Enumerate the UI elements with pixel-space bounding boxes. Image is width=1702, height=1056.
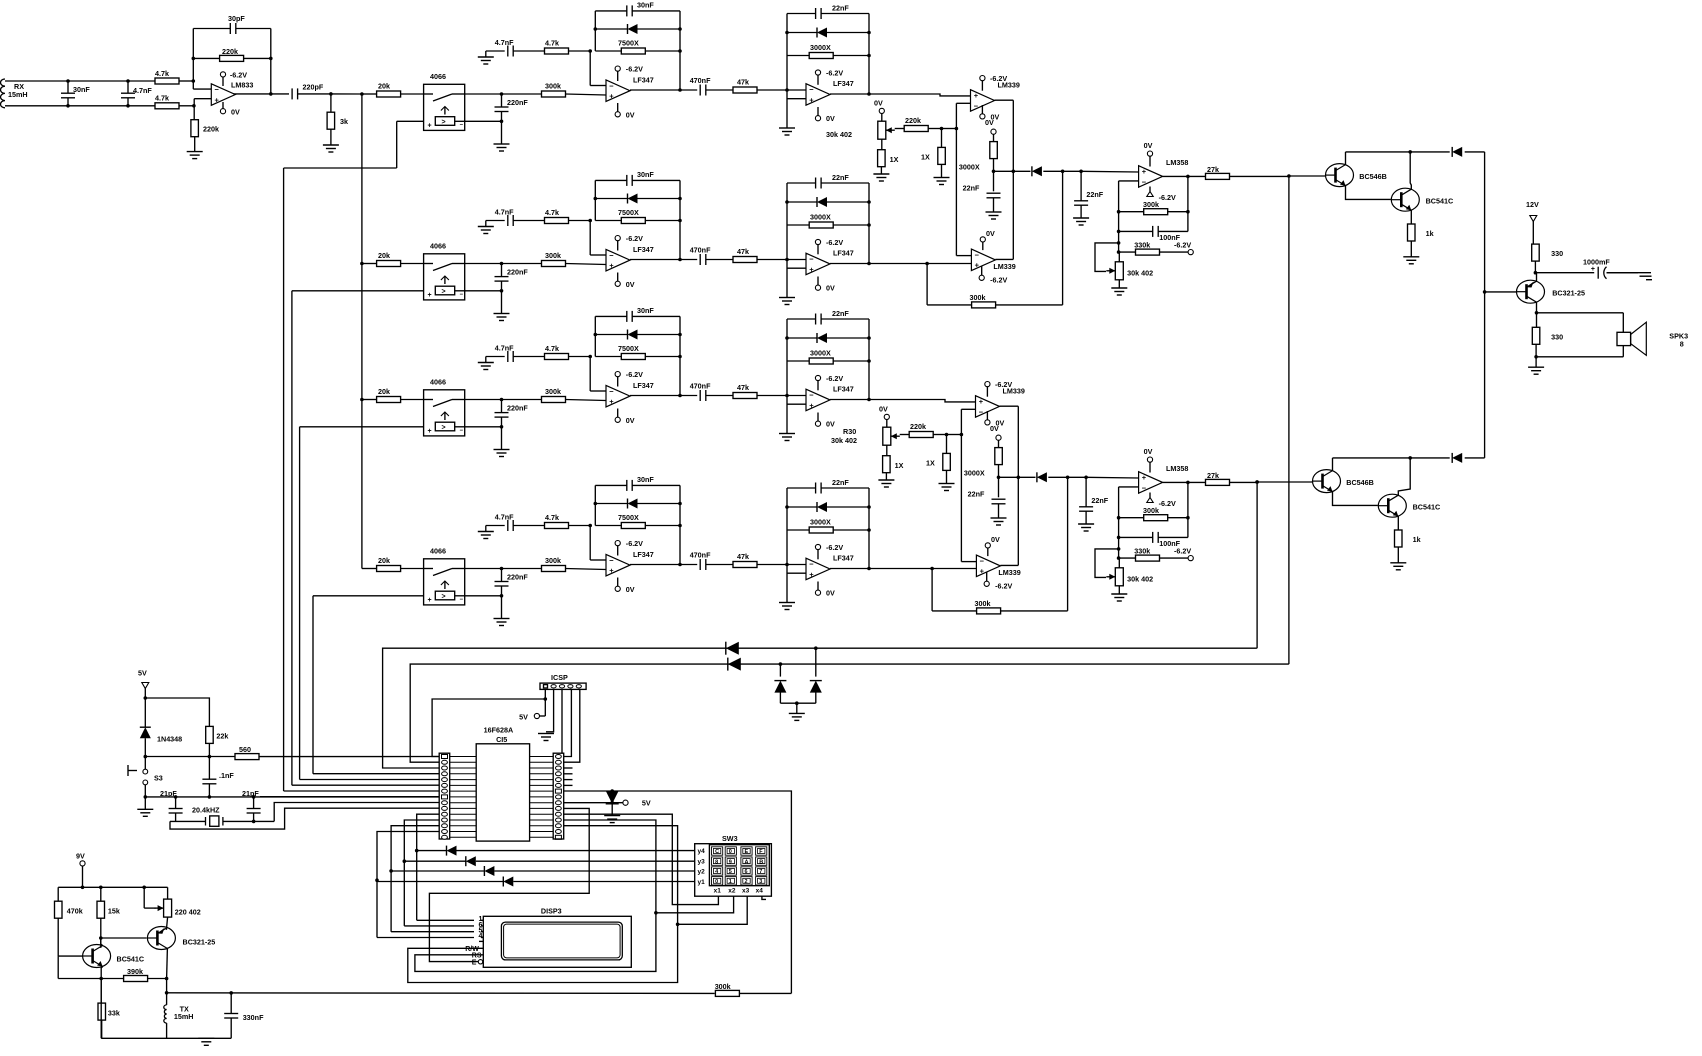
svg-text:LF347: LF347 — [833, 554, 854, 563]
svg-text:4066: 4066 — [430, 378, 446, 387]
svg-text:LF347: LF347 — [833, 79, 854, 88]
svg-text:−: − — [809, 255, 814, 264]
svg-text:330k: 330k — [1134, 241, 1150, 250]
svg-text:>: > — [442, 424, 446, 431]
svg-text:7500X: 7500X — [618, 344, 639, 353]
svg-text:220pF: 220pF — [303, 83, 324, 92]
svg-text:1000mF: 1000mF — [1583, 258, 1610, 267]
svg-text:20k: 20k — [378, 556, 390, 565]
svg-text:27k: 27k — [1207, 165, 1219, 174]
svg-text:0V: 0V — [626, 585, 635, 594]
svg-text:300k: 300k — [545, 387, 561, 396]
svg-text:+: + — [428, 292, 432, 299]
svg-text:30nF: 30nF — [73, 85, 90, 94]
svg-text:47k: 47k — [737, 383, 749, 392]
svg-text:22nF: 22nF — [832, 173, 849, 182]
svg-text:9: 9 — [729, 859, 732, 865]
svg-text:0V: 0V — [991, 535, 1000, 544]
svg-text:47k: 47k — [737, 552, 749, 561]
svg-text:6: 6 — [745, 869, 748, 875]
svg-text:-6.2V: -6.2V — [1174, 547, 1191, 556]
svg-text:4.7nF: 4.7nF — [495, 208, 514, 217]
svg-text:+: + — [609, 397, 614, 406]
svg-text:470nF: 470nF — [690, 382, 711, 391]
svg-text:4.7k: 4.7k — [155, 94, 169, 103]
svg-text:1X: 1X — [890, 155, 899, 164]
svg-text:y3: y3 — [698, 859, 706, 866]
svg-text:−: − — [609, 387, 614, 396]
svg-text:300k: 300k — [715, 982, 731, 991]
svg-text:+: + — [974, 91, 979, 100]
svg-text:B: B — [759, 859, 763, 865]
svg-text:16F628A: 16F628A — [484, 726, 514, 735]
svg-text:9V: 9V — [76, 852, 85, 861]
svg-text:1: 1 — [729, 879, 732, 885]
svg-text:0V: 0V — [626, 110, 635, 119]
svg-text:0V: 0V — [826, 420, 835, 429]
svg-text:x3: x3 — [742, 888, 750, 895]
svg-text:RS: RS — [472, 952, 482, 959]
svg-text:4066: 4066 — [430, 72, 446, 81]
svg-text:LM833: LM833 — [231, 80, 253, 89]
svg-text:1X: 1X — [926, 459, 935, 468]
svg-text:5: 5 — [729, 869, 732, 875]
svg-text:22nF: 22nF — [1086, 190, 1103, 199]
svg-text:-6.2V: -6.2V — [990, 275, 1007, 284]
svg-text:1X: 1X — [921, 153, 930, 162]
svg-text:-6.2V: -6.2V — [826, 374, 843, 383]
svg-text:LF347: LF347 — [833, 385, 854, 394]
svg-text:x1: x1 — [714, 888, 722, 895]
svg-text:7500X: 7500X — [618, 513, 639, 522]
svg-text:5V: 5V — [519, 713, 528, 722]
svg-text:4066: 4066 — [430, 242, 446, 251]
svg-text:300k: 300k — [970, 293, 986, 302]
svg-text:22nF: 22nF — [832, 4, 849, 13]
svg-text:220nF: 220nF — [507, 573, 528, 582]
svg-text:15k: 15k — [108, 907, 120, 916]
svg-text:220nF: 220nF — [507, 98, 528, 107]
svg-text:15mH: 15mH — [8, 90, 28, 99]
svg-text:LM339: LM339 — [993, 262, 1015, 271]
svg-text:+: + — [609, 566, 614, 575]
svg-text:+: + — [975, 261, 980, 270]
svg-text:>: > — [442, 119, 446, 126]
svg-text:4.7k: 4.7k — [545, 344, 559, 353]
svg-text:330: 330 — [1551, 249, 1563, 258]
svg-text:+: + — [609, 92, 614, 101]
svg-text:220k: 220k — [222, 47, 238, 56]
svg-text:30k 402: 30k 402 — [1127, 268, 1153, 277]
svg-text:5V: 5V — [138, 669, 147, 678]
svg-text:−: − — [974, 101, 979, 110]
svg-text:−: − — [809, 391, 814, 400]
svg-text:3000X: 3000X — [810, 349, 831, 358]
svg-text:22nF: 22nF — [1091, 496, 1108, 505]
svg-text:30nF: 30nF — [637, 475, 654, 484]
svg-text:−: − — [979, 407, 984, 416]
svg-text:20k: 20k — [378, 251, 390, 260]
svg-text:220nF: 220nF — [507, 404, 528, 413]
svg-text:+: + — [980, 567, 985, 576]
svg-text:−: − — [1142, 177, 1147, 186]
svg-text:8: 8 — [715, 859, 718, 865]
svg-text:4: 4 — [715, 869, 719, 875]
svg-text:F: F — [759, 849, 763, 855]
svg-text:30nF: 30nF — [637, 306, 654, 315]
svg-text:BC546B: BC546B — [1359, 172, 1387, 181]
svg-text:−: − — [215, 85, 220, 94]
svg-text:4.7k: 4.7k — [545, 39, 559, 48]
svg-text:12V: 12V — [1526, 200, 1539, 209]
svg-text:22nF: 22nF — [832, 478, 849, 487]
svg-text:3000X: 3000X — [810, 213, 831, 222]
svg-text:220nF: 220nF — [507, 268, 528, 277]
svg-text:30nF: 30nF — [637, 0, 654, 9]
svg-text:0V: 0V — [626, 416, 635, 425]
svg-text:47k: 47k — [737, 247, 749, 256]
svg-text:LF347: LF347 — [633, 76, 654, 85]
svg-text:E: E — [472, 959, 477, 966]
svg-text:1X: 1X — [895, 461, 904, 470]
svg-text:220k: 220k — [203, 125, 219, 134]
svg-text:x2: x2 — [728, 888, 736, 895]
svg-text:21pF: 21pF — [160, 789, 177, 798]
svg-text:300k: 300k — [545, 556, 561, 565]
svg-text:0V: 0V — [1144, 447, 1153, 456]
svg-text:-6.2V: -6.2V — [230, 70, 247, 79]
svg-text:4.7nF: 4.7nF — [495, 344, 514, 353]
svg-text:22k: 22k — [216, 731, 228, 740]
svg-text:-6.2V: -6.2V — [626, 539, 643, 548]
svg-text:470nF: 470nF — [690, 246, 711, 255]
svg-text:BC546B: BC546B — [1346, 478, 1374, 487]
svg-text:4.7k: 4.7k — [155, 69, 169, 78]
svg-text:ICSP: ICSP — [551, 673, 568, 682]
svg-text:SW3: SW3 — [722, 834, 738, 843]
svg-text:BC321-25: BC321-25 — [1552, 289, 1585, 298]
svg-text:470k: 470k — [67, 907, 83, 916]
svg-text:BC321-25: BC321-25 — [183, 938, 216, 947]
svg-text:8: 8 — [1680, 340, 1684, 349]
svg-text:0: 0 — [715, 879, 718, 885]
svg-text:S3: S3 — [154, 774, 163, 783]
svg-text:7: 7 — [759, 869, 762, 875]
svg-text:47k: 47k — [737, 78, 749, 87]
svg-text:−: − — [609, 251, 614, 260]
svg-text:>: > — [442, 288, 446, 295]
svg-text:E: E — [745, 849, 749, 855]
svg-text:0V: 0V — [990, 424, 999, 433]
svg-text:+: + — [428, 123, 432, 130]
svg-text:+: + — [609, 261, 614, 270]
svg-text:LF347: LF347 — [633, 381, 654, 390]
svg-text:DISP3: DISP3 — [541, 907, 562, 916]
svg-text:0V: 0V — [1144, 141, 1153, 150]
svg-text:30k 402: 30k 402 — [1127, 574, 1153, 583]
svg-text:560: 560 — [239, 745, 251, 754]
svg-text:300k: 300k — [1143, 200, 1159, 209]
svg-text:y2: y2 — [698, 869, 706, 876]
svg-text:−: − — [460, 428, 464, 434]
svg-text:0V: 0V — [626, 280, 635, 289]
svg-text:SPK3: SPK3 — [1669, 332, 1688, 341]
svg-text:−: − — [460, 597, 464, 603]
svg-text:30k 402: 30k 402 — [826, 130, 852, 139]
svg-text:20k: 20k — [378, 387, 390, 396]
svg-text:y1: y1 — [698, 879, 706, 886]
svg-text:+: + — [1142, 167, 1147, 176]
svg-text:22nF: 22nF — [832, 309, 849, 318]
svg-text:−: − — [809, 85, 814, 94]
svg-text:330nF: 330nF — [243, 1013, 264, 1022]
svg-text:LM358: LM358 — [1166, 158, 1188, 167]
svg-text:−: − — [1142, 483, 1147, 492]
svg-text:−: − — [809, 560, 814, 569]
svg-text:3000X: 3000X — [810, 43, 831, 52]
svg-text:LF347: LF347 — [633, 245, 654, 254]
svg-text:4066: 4066 — [430, 547, 446, 556]
svg-text:1k: 1k — [1426, 229, 1434, 238]
svg-text:A: A — [745, 859, 749, 865]
svg-text:LM339: LM339 — [1003, 387, 1025, 396]
svg-text:330: 330 — [1551, 333, 1563, 342]
svg-text:-6.2V: -6.2V — [826, 69, 843, 78]
svg-text:+: + — [428, 428, 432, 435]
svg-text:LF347: LF347 — [633, 550, 654, 559]
svg-text:21pF: 21pF — [242, 789, 259, 798]
svg-text:LM339: LM339 — [998, 568, 1020, 577]
svg-text:-6.2V: -6.2V — [826, 238, 843, 247]
svg-text:33k: 33k — [108, 1009, 120, 1018]
svg-text:3: 3 — [759, 879, 762, 885]
svg-text:3000X: 3000X — [964, 469, 985, 478]
svg-text:7500X: 7500X — [618, 39, 639, 48]
svg-text:−: − — [609, 81, 614, 90]
svg-text:0V: 0V — [826, 589, 835, 598]
svg-text:LF347: LF347 — [833, 249, 854, 258]
svg-text:220k: 220k — [905, 116, 921, 125]
svg-text:-6.2V: -6.2V — [626, 370, 643, 379]
svg-text:4.7nF: 4.7nF — [495, 513, 514, 522]
svg-text:+: + — [428, 597, 432, 604]
svg-text:LM339: LM339 — [998, 81, 1020, 90]
svg-text:20k: 20k — [378, 82, 390, 91]
svg-text:BC541C: BC541C — [1413, 503, 1441, 512]
svg-text:-6.2V: -6.2V — [1159, 193, 1176, 202]
svg-text:y4: y4 — [698, 848, 706, 855]
svg-text:0V: 0V — [826, 114, 835, 123]
svg-text:30k 402: 30k 402 — [831, 436, 857, 445]
svg-text:300k: 300k — [975, 599, 991, 608]
svg-text:4.7k: 4.7k — [545, 208, 559, 217]
svg-text:0V: 0V — [879, 405, 888, 414]
svg-text:-6.2V: -6.2V — [626, 234, 643, 243]
svg-text:0V: 0V — [874, 99, 883, 108]
svg-text:+: + — [809, 570, 814, 579]
svg-text:470nF: 470nF — [690, 551, 711, 560]
svg-text:0V: 0V — [985, 118, 994, 127]
svg-text:5V: 5V — [642, 799, 651, 808]
svg-text:−: − — [460, 123, 464, 129]
svg-text:LM358: LM358 — [1166, 464, 1188, 473]
svg-text:−: − — [975, 251, 980, 260]
svg-text:BC541C: BC541C — [1426, 197, 1454, 206]
svg-text:220k: 220k — [910, 422, 926, 431]
svg-text:3k: 3k — [340, 117, 348, 126]
svg-text:220 402: 220 402 — [175, 908, 201, 917]
svg-text:390k: 390k — [127, 967, 143, 976]
svg-text:300k: 300k — [545, 82, 561, 91]
svg-text:0V: 0V — [231, 107, 240, 116]
svg-text:0V: 0V — [826, 284, 835, 293]
svg-text:−: − — [980, 557, 985, 566]
svg-text:30nF: 30nF — [637, 170, 654, 179]
svg-text:27k: 27k — [1207, 471, 1219, 480]
svg-text:4.7nF: 4.7nF — [133, 86, 152, 95]
svg-text:4.7nF: 4.7nF — [495, 38, 514, 47]
svg-text:7500X: 7500X — [618, 208, 639, 217]
svg-text:470nF: 470nF — [690, 76, 711, 85]
svg-text:-6.2V: -6.2V — [1159, 499, 1176, 508]
svg-text:+: + — [979, 397, 984, 406]
svg-text:22nF: 22nF — [968, 490, 985, 499]
svg-text:30pF: 30pF — [228, 14, 245, 23]
svg-text:C: C — [715, 849, 719, 855]
svg-text:20.4kHZ: 20.4kHZ — [192, 806, 220, 815]
svg-text:-6.2V: -6.2V — [995, 581, 1012, 590]
svg-text:+: + — [1591, 266, 1595, 273]
svg-text:0: 0 — [729, 849, 732, 855]
svg-text:−: − — [460, 292, 464, 298]
svg-text:-6.2V: -6.2V — [826, 543, 843, 552]
svg-text:2: 2 — [745, 879, 748, 885]
svg-text:4: 4 — [479, 933, 483, 940]
svg-text:x4: x4 — [756, 888, 764, 895]
svg-text:300k: 300k — [1143, 506, 1159, 515]
svg-text:15mH: 15mH — [174, 1012, 194, 1021]
svg-text:+: + — [809, 95, 814, 104]
svg-text:3000X: 3000X — [810, 518, 831, 527]
svg-text:+: + — [1142, 473, 1147, 482]
svg-text:-6.2V: -6.2V — [626, 65, 643, 74]
svg-text:1k: 1k — [1413, 535, 1421, 544]
svg-text:3000X: 3000X — [959, 163, 980, 172]
svg-text:−: − — [609, 556, 614, 565]
svg-text:330k: 330k — [1134, 547, 1150, 556]
svg-text:0V: 0V — [986, 229, 995, 238]
svg-text:4.7k: 4.7k — [545, 513, 559, 522]
svg-text:+: + — [809, 401, 814, 410]
svg-text:300k: 300k — [545, 251, 561, 260]
svg-text:>: > — [442, 593, 446, 600]
svg-text:R30: R30 — [843, 427, 856, 436]
svg-text:-6.2V: -6.2V — [1174, 241, 1191, 250]
svg-text:.1nF: .1nF — [219, 771, 234, 780]
svg-text:BC541C: BC541C — [117, 955, 145, 964]
svg-text:+: + — [215, 95, 220, 104]
svg-text:1N4348: 1N4348 — [157, 735, 182, 744]
svg-text:22nF: 22nF — [963, 184, 980, 193]
svg-text:CI5: CI5 — [496, 735, 507, 744]
svg-text:+: + — [809, 265, 814, 274]
